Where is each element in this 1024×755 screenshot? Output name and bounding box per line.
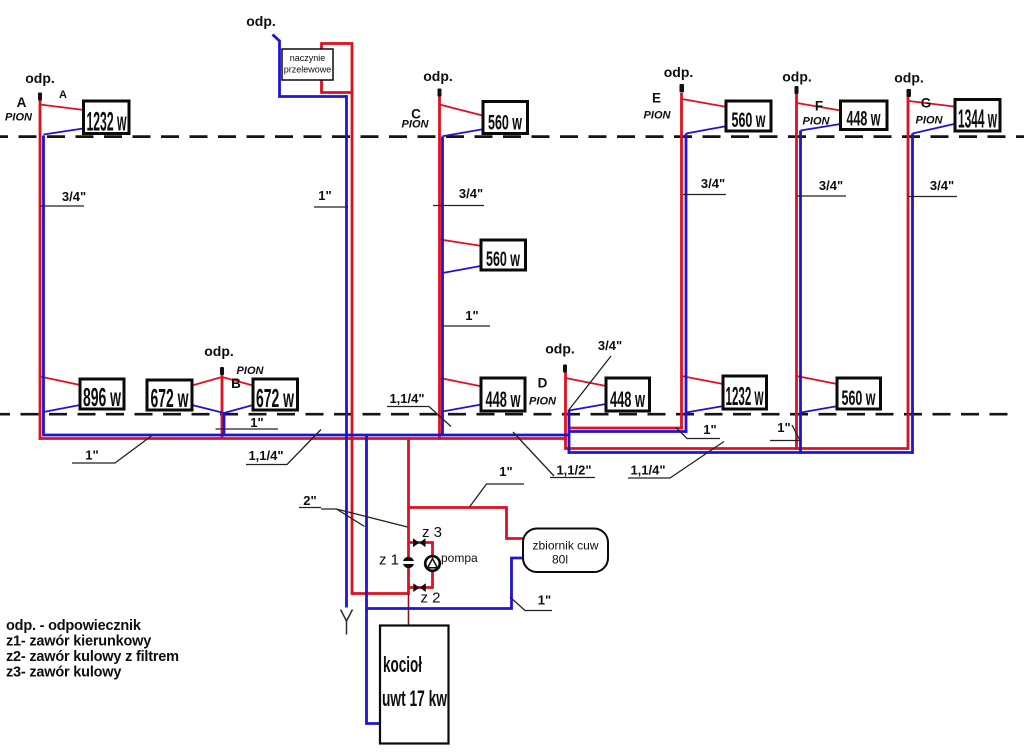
svg-text:PION: PION	[529, 396, 557, 408]
svg-text:pompa: pompa	[441, 551, 478, 565]
wire: radiator F bottom supply	[797, 376, 838, 384]
svg-text:448 w: 448 w	[847, 108, 881, 131]
wire: upper run D to E red	[568, 427, 683, 430]
wire: radiator E bottom return	[686, 406, 724, 413]
svg-text:3/4": 3/4"	[701, 176, 725, 191]
pion A 3/4 tick	[40, 205, 84, 207]
svg-text:3/4": 3/4"	[819, 178, 843, 193]
svg-text:G: G	[921, 96, 932, 111]
wire: DHW tank blue return	[367, 558, 525, 609]
wire: radiator C mid return	[443, 266, 483, 273]
svg-text:odp.: odp.	[25, 70, 55, 86]
svg-text:3/4": 3/4"	[598, 338, 622, 353]
wire: expansion vessel red loop	[322, 44, 353, 93]
svg-text:1232 w: 1232 w	[726, 381, 764, 411]
svg-text:560 w: 560 w	[488, 112, 522, 135]
boiler kociol uwt 17 kw	[380, 626, 449, 744]
svg-text:80l: 80l	[552, 553, 568, 567]
svg-text:1,1/2": 1,1/2"	[556, 463, 591, 478]
pion F 3/4 tick	[797, 195, 846, 197]
DHW tank zbiornik cuw 80l	[523, 529, 608, 573]
svg-text:PION: PION	[237, 365, 265, 377]
svg-text:naczynie: naczynie	[290, 53, 326, 63]
radiator B left 672w	[147, 380, 192, 410]
pion A labels	[5, 70, 86, 204]
wire: left distribution run red	[39, 437, 567, 440]
svg-text:odp.: odp.	[545, 341, 575, 357]
svg-text:1": 1"	[777, 420, 790, 435]
radiator C top 560w	[483, 102, 528, 134]
wire: pion E red riser	[680, 93, 683, 429]
pion E labels	[644, 64, 726, 191]
wire: pion D blue riser	[568, 411, 571, 454]
svg-text:560 w: 560 w	[842, 387, 876, 410]
radiator F bottom 560w	[837, 378, 881, 409]
svg-text:odp. - odpowiecznik: odp. - odpowiecznik	[6, 618, 142, 634]
wire: pion A blue riser	[42, 136, 45, 437]
wire: radiator A bottom return	[44, 405, 81, 412]
svg-text:672 w: 672 w	[151, 383, 189, 413]
wire: upper run D to E blue	[569, 430, 687, 433]
svg-text:PION: PION	[803, 116, 831, 128]
svg-text:1,1/4": 1,1/4"	[248, 448, 283, 463]
svg-text:PION: PION	[5, 112, 33, 124]
wire: radiator E bottom supply	[682, 376, 724, 384]
wire: radiator B right supply	[222, 377, 253, 386]
svg-text:z1- zawór kierunkowy: z1- zawór kierunkowy	[6, 634, 151, 650]
pion D labels	[529, 338, 622, 408]
radiator A top 1232w	[84, 101, 130, 134]
wire: radiator A top supply	[40, 105, 84, 111]
radiator D 448w	[606, 378, 650, 411]
radiator A bottom 896w	[80, 379, 124, 409]
dimension 1 inch E run	[676, 422, 720, 439]
pion C 1 inch tick	[443, 325, 491, 327]
odp vent ticks	[38, 84, 911, 375]
radiator B right 672w	[253, 379, 298, 410]
svg-text:1,1/4": 1,1/4"	[630, 463, 665, 478]
svg-text:z 1: z 1	[379, 552, 399, 569]
wire: radiator F top supply	[797, 103, 841, 111]
dimension 1,1/4 lower left	[246, 430, 321, 465]
svg-text:1344 w: 1344 w	[958, 104, 997, 134]
wire: pion B red riser	[221, 375, 224, 439]
svg-text:z3- zawór kulowy: z3- zawór kulowy	[6, 665, 121, 681]
svg-text:1": 1"	[250, 415, 263, 430]
svg-text:1": 1"	[538, 593, 551, 608]
pion E 3/4 tick	[683, 194, 726, 196]
wire: radiator B left return	[192, 405, 224, 413]
radiator F top 448w	[841, 101, 888, 130]
wire: radiator C bottom supply	[440, 378, 481, 386]
svg-text:przelewowe: przelewowe	[284, 65, 332, 75]
dimension 1 inch tank feed	[470, 464, 525, 507]
svg-text:560 w: 560 w	[732, 109, 766, 132]
wire: pion C blue riser	[441, 137, 444, 437]
svg-text:1": 1"	[318, 188, 331, 203]
svg-text:odp.: odp.	[894, 70, 924, 86]
wire: radiator G return	[913, 124, 955, 134]
wire: pump feed red vertical	[407, 439, 410, 595]
dimension 1,1/4 lower right	[628, 442, 724, 479]
pump pompa	[425, 556, 440, 571]
svg-text:3/4": 3/4"	[930, 178, 954, 193]
wire: boiler red stub	[408, 594, 410, 626]
wire: pion B blue stub	[223, 413, 226, 435]
wire: pion G red riser	[907, 93, 910, 450]
dimension 1,1/4 upper (B-C)	[387, 391, 451, 427]
svg-text:1": 1"	[703, 422, 716, 437]
wire: radiator A bottom supply	[40, 377, 80, 386]
wire: pion F red riser	[795, 93, 798, 450]
svg-text:z 3: z 3	[422, 524, 442, 541]
svg-text:2": 2"	[303, 493, 316, 508]
wire: radiator G supply	[909, 101, 954, 107]
wire: radiator C bottom return	[443, 405, 482, 412]
wire: pion A red riser	[39, 95, 42, 440]
wire: lower distribution run red	[566, 447, 909, 450]
wire: radiator B left supply	[192, 377, 222, 386]
wire: radiator C mid supply	[440, 240, 482, 247]
svg-text:kocioł: kocioł	[383, 652, 422, 677]
wire: boiler return blue riser	[367, 435, 381, 724]
pion C labels	[402, 68, 484, 323]
wire: pump bypass branch	[409, 543, 433, 588]
valve z3 (ball valve)	[413, 538, 426, 547]
svg-text:odp.: odp.	[423, 68, 453, 84]
floor dashed line lower	[0, 413, 1018, 416]
svg-text:odp.: odp.	[246, 13, 276, 29]
svg-text:D: D	[538, 376, 548, 391]
vent tick G	[907, 89, 912, 97]
svg-text:PION: PION	[644, 109, 672, 121]
svg-text:1,1/4": 1,1/4"	[389, 391, 424, 406]
wire: pion C red riser	[438, 96, 441, 440]
wire: radiator D supply	[566, 378, 607, 386]
svg-text:odp.: odp.	[664, 64, 694, 80]
svg-text:1232 w: 1232 w	[87, 107, 127, 137]
svg-text:A: A	[59, 89, 67, 101]
wire: red to DHW tank	[409, 508, 525, 539]
floor dashed line upper	[0, 135, 1024, 138]
radiator C mid 560w	[481, 240, 526, 270]
vent tick F	[795, 86, 799, 94]
radiator boxes	[80, 100, 1000, 412]
svg-text:672 w: 672 w	[256, 383, 294, 413]
wire: pion F blue riser	[799, 131, 802, 454]
valve z2 (ball valve with filter)	[413, 583, 426, 592]
wire: main riser blue	[345, 95, 348, 607]
pion B labels	[204, 343, 264, 430]
svg-text:uwt 17 kw: uwt 17 kw	[382, 686, 448, 711]
expansion vessel box naczynie przelewowe	[282, 49, 333, 80]
radiator E top 560w	[726, 101, 771, 131]
pion C 3/4 tick	[433, 205, 484, 207]
svg-text:zbiornik cuw: zbiornik cuw	[532, 539, 598, 553]
svg-text:1": 1"	[499, 464, 512, 479]
wire: expansion vessel blue pipe	[273, 35, 347, 97]
dimension 1 inch left run	[72, 436, 152, 464]
svg-text:odp.: odp.	[782, 69, 812, 85]
wire: lower distribution run blue	[568, 451, 913, 454]
vent tick C	[438, 89, 442, 97]
wire: radiator E top return	[686, 126, 727, 134]
drain Y symbol	[341, 610, 353, 635]
pion G labels	[894, 70, 954, 194]
svg-text:448 w: 448 w	[486, 387, 522, 412]
wire: radiator D return	[569, 404, 606, 411]
dimension 1 inch tank return	[510, 593, 552, 611]
dimension 1,1/2	[513, 432, 595, 478]
vent tick D	[563, 365, 567, 373]
wire: radiator A top return	[44, 128, 85, 134]
wire: radiator F bottom return	[801, 406, 838, 413]
svg-text:A: A	[17, 95, 27, 110]
svg-text:3/4": 3/4"	[459, 186, 483, 201]
svg-text:PION: PION	[916, 115, 944, 127]
svg-text:odp.: odp.	[204, 343, 234, 359]
wire: radiator C top return	[443, 129, 483, 136]
main riser 1 inch tick	[314, 206, 348, 208]
wire: boiler to riser red bottom	[352, 592, 409, 595]
radiator C bottom 448w	[481, 378, 525, 411]
pion F labels	[782, 69, 843, 194]
pion G 3/4 tick	[908, 196, 957, 198]
wire: radiator C top supply	[440, 105, 484, 116]
valve z1 (directional valve)	[402, 557, 416, 568]
wire: pion D red riser	[564, 372, 567, 450]
svg-text:448 w: 448 w	[610, 387, 646, 412]
svg-text:3/4": 3/4"	[62, 189, 86, 204]
svg-text:B: B	[231, 376, 241, 391]
wire: left distribution run blue	[44, 434, 571, 437]
svg-text:E: E	[652, 91, 661, 106]
pion D 3/4 leader	[568, 356, 611, 411]
svg-text:PION: PION	[402, 119, 430, 131]
radiator G 1344w	[955, 100, 1000, 132]
wire: radiator E top supply	[682, 99, 727, 107]
wire: main supply riser red	[351, 91, 354, 595]
wire: radiator B right return	[224, 405, 253, 413]
vent tick B	[220, 367, 224, 375]
pion B 1 inch tick	[216, 428, 279, 430]
wire: pion G blue riser	[911, 134, 914, 454]
valve labels	[379, 524, 478, 607]
vent tick A	[38, 93, 42, 101]
svg-text:F: F	[815, 99, 823, 114]
svg-text:1": 1"	[85, 448, 98, 463]
svg-text:1": 1"	[465, 308, 478, 323]
svg-text:z2- zawór kulowy z filtrem: z2- zawór kulowy z filtrem	[6, 649, 179, 665]
radiator E bottom 1232w	[723, 376, 767, 409]
svg-text:896 w: 896 w	[83, 382, 121, 412]
vent tick E	[680, 84, 685, 93]
dimension 1 inch F pion	[770, 420, 800, 441]
svg-text:560 w: 560 w	[486, 248, 520, 271]
svg-text:z 2: z 2	[421, 590, 441, 607]
wire: radiator F top return	[801, 124, 841, 131]
legend	[6, 618, 179, 681]
wire: pion E blue riser	[685, 134, 688, 433]
dimension 2 inch	[299, 493, 408, 527]
